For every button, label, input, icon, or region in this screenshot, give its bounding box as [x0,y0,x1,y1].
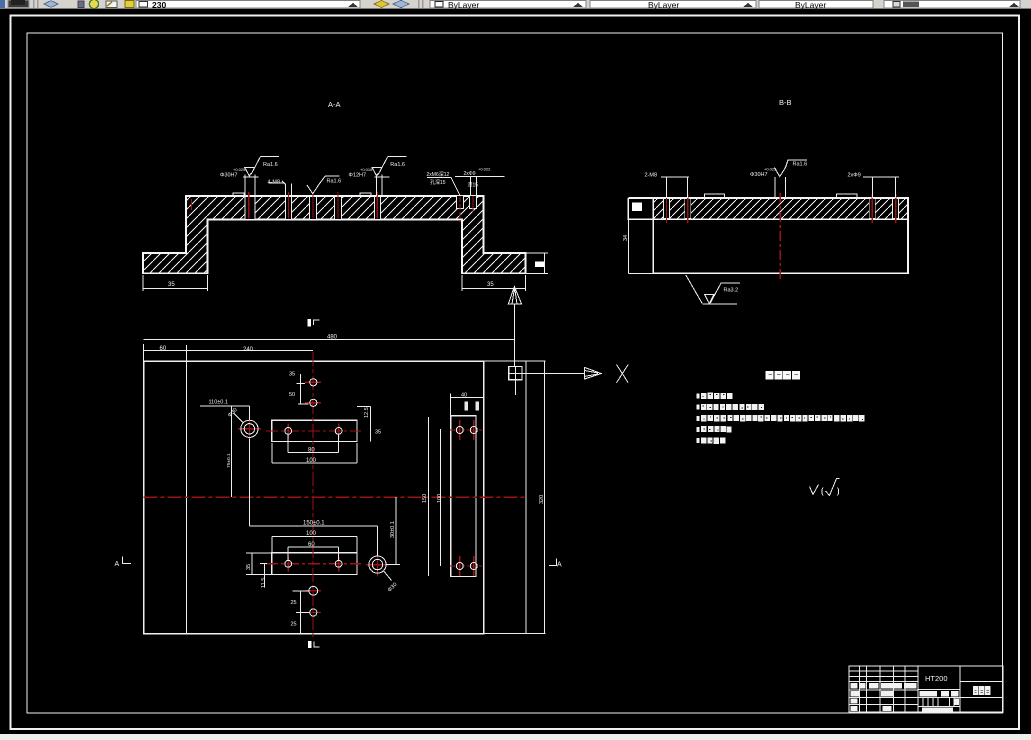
svg-text:A: A [557,562,562,569]
svg-text:孔深15: 孔深15 [430,179,446,186]
svg-text:60: 60 [308,542,315,548]
svg-text:ByLayer: ByLayer [648,0,679,10]
svg-text:2xΦ9: 2xΦ9 [848,173,861,179]
svg-text:Ra1.6: Ra1.6 [327,179,342,185]
svg-text:30±0.1: 30±0.1 [390,521,396,538]
svg-text:Ra1.6: Ra1.6 [390,162,405,168]
svg-text:100: 100 [437,494,443,503]
svg-text:ByLayer: ByLayer [448,0,479,10]
svg-text:+0.025: +0.025 [233,167,246,172]
svg-text:75±0.1: 75±0.1 [226,453,232,468]
svg-text:35: 35 [168,282,175,288]
svg-text:40: 40 [461,393,467,399]
svg-text:230: 230 [152,0,166,10]
svg-text:240: 240 [243,347,254,353]
svg-text:HT200: HT200 [925,674,948,683]
svg-text:150: 150 [422,494,428,503]
svg-text:+0.022: +0.022 [478,167,491,172]
svg-text:25: 25 [291,600,297,606]
svg-text:100: 100 [306,458,317,464]
svg-text:A-A: A-A [328,100,341,109]
svg-text:110±0.1: 110±0.1 [209,400,228,406]
svg-text:A: A [115,561,120,568]
svg-text:ByLayer: ByLayer [795,0,826,10]
svg-text:+0.018: +0.018 [360,167,373,172]
svg-text:25: 25 [291,622,297,628]
svg-text:80: 80 [308,448,315,454]
svg-text:B-B: B-B [779,98,792,107]
svg-text:35: 35 [289,372,295,378]
svg-text:34: 34 [623,235,629,241]
svg-text:480: 480 [327,335,338,341]
svg-text:Ra3.2: Ra3.2 [724,288,739,294]
svg-text:35: 35 [375,430,381,436]
svg-text:4-M8: 4-M8 [268,180,281,186]
svg-text:2xM6深12: 2xM6深12 [427,171,450,178]
svg-text:150±0.1: 150±0.1 [303,521,325,527]
svg-text:60: 60 [160,346,167,352]
svg-text:11.5: 11.5 [261,578,267,588]
svg-text:Ra1.6: Ra1.6 [263,162,278,168]
svg-text:2-M8: 2-M8 [645,173,658,179]
svg-text:100: 100 [306,531,317,537]
svg-text:Φ30H7: Φ30H7 [750,172,768,178]
svg-text:35: 35 [487,282,494,288]
svg-text:Φ30H7: Φ30H7 [220,173,238,179]
svg-text:35: 35 [246,564,252,570]
svg-text:Ra1.6: Ra1.6 [793,162,808,168]
svg-text:50: 50 [289,392,295,398]
svg-text:Φ12H7: Φ12H7 [349,173,367,179]
svg-text:320: 320 [539,495,545,504]
svg-text:12.5: 12.5 [364,407,370,418]
